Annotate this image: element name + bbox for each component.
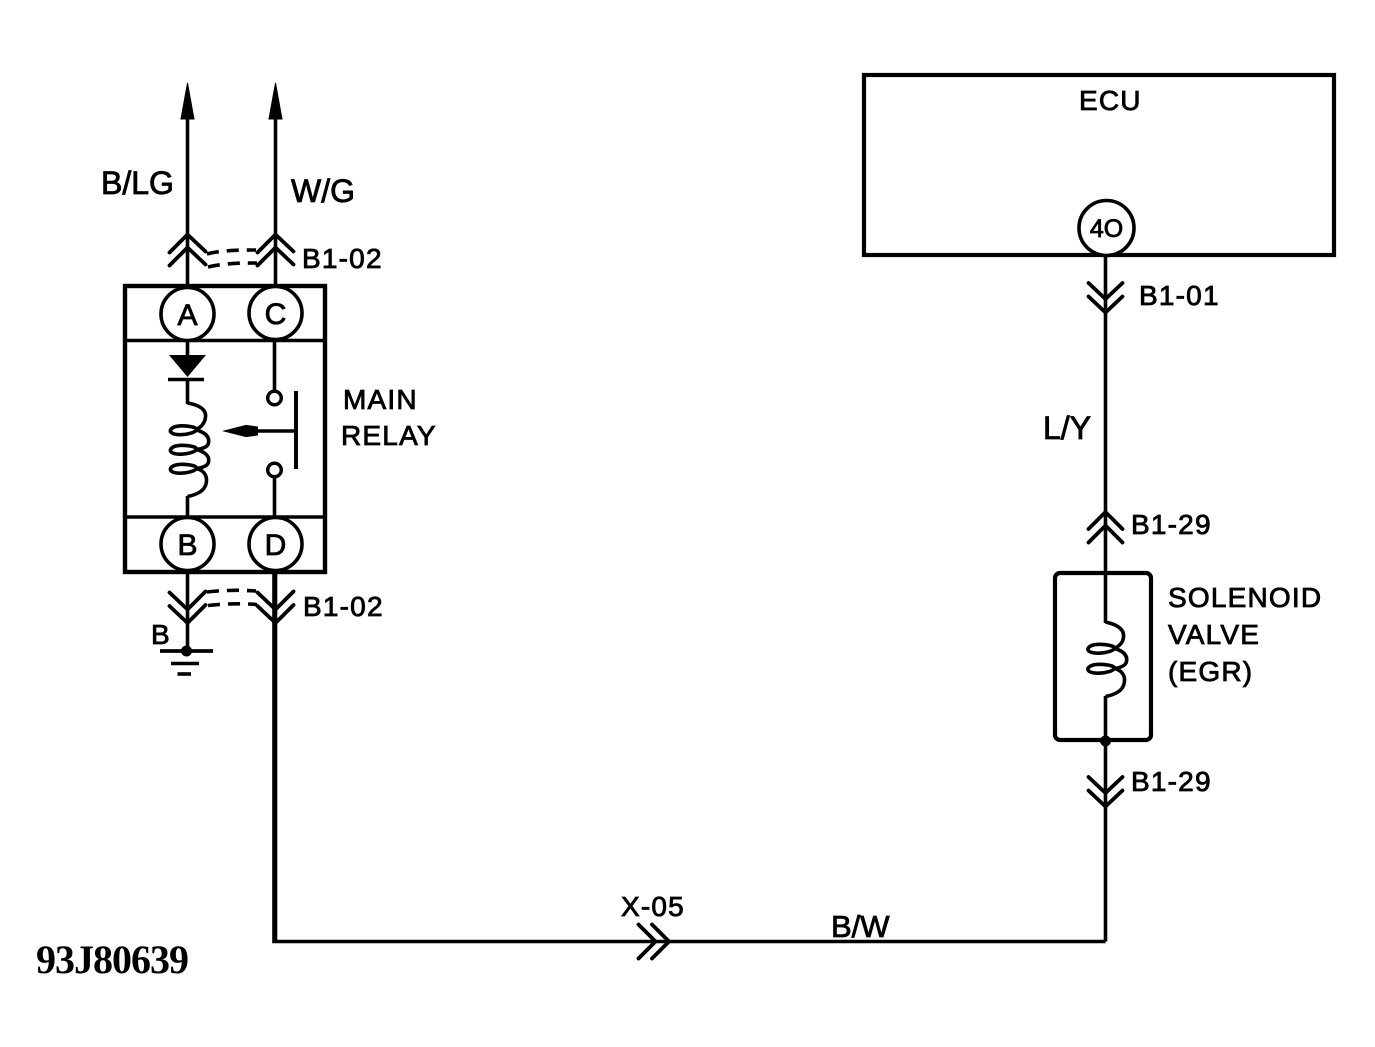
connector chevron X-05	[639, 925, 670, 959]
connector chevrons B1-02 top W2	[258, 235, 294, 266]
wire bottom run (B/W)	[274, 572, 1106, 942]
wire W2 vertical (W/G)	[274, 110, 278, 287]
dashed tie lines B1-02 top	[207, 250, 257, 267]
wire W1 vertical (B/LG)	[186, 110, 190, 287]
svg-text:MAIN: MAIN	[343, 384, 418, 415]
pin B	[161, 518, 214, 571]
svg-text:A: A	[177, 299, 197, 332]
wire coil to box bottom	[1104, 696, 1108, 942]
svg-text:(EGR): (EGR)	[1168, 656, 1253, 687]
svg-text:W/G: W/G	[291, 173, 355, 209]
svg-text:B/LG: B/LG	[101, 165, 174, 201]
pin D	[249, 518, 302, 571]
wire A to diode	[186, 341, 190, 357]
pin C	[249, 287, 302, 340]
solenoid valve box	[1055, 573, 1151, 740]
pin A	[161, 288, 214, 341]
svg-text:RELAY: RELAY	[341, 420, 437, 451]
svg-text:B1-02: B1-02	[303, 591, 384, 622]
wire C to switch contact	[273, 341, 277, 392]
label MAIN RELAY	[341, 384, 437, 451]
switch contact upper	[268, 391, 282, 405]
label SOLENOID VALVE (EGR)	[1168, 582, 1322, 687]
svg-text:X-05: X-05	[621, 891, 685, 922]
svg-text:C: C	[265, 298, 287, 331]
wire ECU to solenoid (L/Y)	[1104, 256, 1108, 624]
svg-text:4O: 4O	[1090, 215, 1123, 243]
relay box MAIN RELAY	[125, 286, 325, 572]
wire lower contact to D	[273, 477, 277, 518]
arrowhead W1 top	[181, 83, 194, 119]
switch contact lower	[268, 463, 282, 477]
svg-text:B1-01: B1-01	[1139, 280, 1220, 311]
wire coil to B	[186, 496, 190, 518]
relay bottom band line	[125, 515, 325, 519]
wire B to ground	[186, 572, 190, 651]
connector chevrons B1-02 top W1	[170, 235, 206, 266]
dashed tie lines B1-02 bottom	[207, 590, 257, 605]
relay coil L1	[170, 403, 208, 497]
svg-text:B1-29: B1-29	[1131, 509, 1212, 540]
diode CR1 (cathode bar down)	[168, 355, 206, 380]
arrowhead W2 top	[269, 83, 282, 119]
svg-text:B: B	[177, 529, 197, 562]
svg-text:ECU: ECU	[1079, 85, 1142, 116]
ECU pin 4O	[1079, 201, 1134, 256]
svg-text:B1-02: B1-02	[302, 243, 383, 274]
connector chevrons B1-29 upper	[1089, 512, 1123, 543]
ground G1	[160, 646, 213, 675]
svg-text:D: D	[265, 529, 287, 562]
svg-text:B/W: B/W	[831, 909, 890, 944]
wire D down	[274, 572, 278, 942]
svg-text:B1-29: B1-29	[1131, 766, 1212, 797]
wire diode to coil	[186, 379, 190, 404]
svg-text:SOLENOID: SOLENOID	[1168, 582, 1322, 613]
junction dot solenoid bottom	[1100, 736, 1111, 747]
svg-text:B: B	[151, 619, 171, 650]
svg-text:L/Y: L/Y	[1043, 410, 1091, 446]
svg-text:VALVE: VALVE	[1168, 619, 1260, 650]
ECU box U1	[864, 75, 1334, 255]
switch armature bar	[294, 391, 298, 469]
switch actuator arrow	[222, 425, 296, 437]
solenoid coil L2	[1088, 622, 1127, 697]
relay top band line	[125, 339, 325, 343]
connector chevrons B1-02 bottom B wire	[170, 592, 206, 624]
svg-text:93J80639: 93J80639	[36, 937, 188, 982]
connector chevrons B1-02 bottom D wire	[258, 592, 294, 624]
connector chevrons B1-29 lower	[1089, 777, 1123, 807]
connector chevrons B1-01	[1089, 283, 1123, 313]
